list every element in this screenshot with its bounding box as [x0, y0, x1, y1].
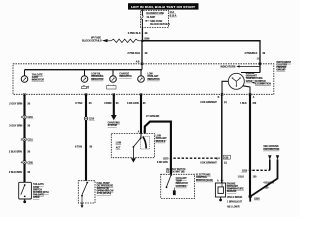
connector C08	[216, 155, 230, 160]
svg-text:CHARGING: CHARGING	[108, 122, 120, 125]
engine coolant temperature gauge	[228, 73, 244, 89]
label 1 BLK 150 lower	[238, 176, 257, 178]
fuel pump oil pressure switch box	[78, 181, 95, 203]
svg-text:LOW: LOW	[116, 142, 122, 144]
wire pnk/blk from fuse down	[141, 28, 143, 41]
svg-text:MODULE: MODULE	[156, 141, 166, 143]
svg-text:COOLANT: COOLANT	[147, 75, 159, 78]
connector C210 (left)	[21, 115, 34, 119]
wire dk grn/wht from gauge pin B	[221, 94, 223, 183]
cluster illumination branch	[252, 81, 272, 86]
label 2 BRN 35	[104, 102, 119, 105]
wire blk from gauge pin A	[249, 94, 251, 196]
svg-text:A B: A B	[136, 60, 140, 63]
gauge right pin wire	[243, 86, 250, 95]
label 2 GY BRN 30	[9, 102, 31, 105]
svg-text:COOLANT: COOLANT	[156, 137, 168, 140]
svg-text:TAILGATE: TAILGATE	[33, 194, 44, 197]
low coolant module ground	[131, 158, 136, 162]
svg-text:SEE GROUND: SEE GROUND	[263, 146, 278, 148]
svg-text:3 DK GRN: 3 DK GRN	[127, 102, 139, 105]
wire dk grn to ecm (elbow)	[145, 122, 171, 175]
connector C305	[21, 161, 34, 165]
svg-text:INDICATOR: INDICATOR	[147, 78, 160, 81]
svg-text:BLOCK DETAILS: BLOCK DETAILS	[82, 40, 102, 43]
splice S210	[241, 169, 251, 173]
svg-text:GAGE: GAGE	[246, 80, 253, 83]
ecm pin labels	[166, 168, 186, 174]
svg-text:SYSTEM: SYSTEM	[108, 125, 117, 127]
svg-text:INDICATORS: INDICATORS	[220, 66, 235, 69]
svg-text:2 BLK BRN: 2 BLK BRN	[9, 171, 22, 174]
label 1 BLK 150 upper	[240, 103, 257, 105]
svg-text:DISTRIBUTION: DISTRIBUTION	[263, 149, 279, 151]
connector C110	[21, 138, 34, 142]
svg-text:4 PSI (28 kPa): 4 PSI (28 kPa)	[97, 192, 112, 195]
label 8 DK GRN/WHT (L)	[200, 102, 227, 104]
svg-text:3 GXY BRN: 3 GXY BRN	[9, 125, 22, 128]
svg-text:8 TAN: 8 TAN	[75, 146, 82, 149]
label 8 DK GRN/WHT (L) lower	[200, 163, 227, 165]
stub to lamp 3	[112, 70, 114, 76]
label low coolant module	[156, 136, 168, 143]
ground G200	[249, 195, 261, 202]
label electronic control module	[196, 175, 213, 182]
fuse wire lower stub	[141, 20, 143, 28]
svg-text:TAILGATE: TAILGATE	[32, 74, 43, 77]
ground dist arrow 2	[250, 155, 279, 196]
svg-text:HOT IN RUN, BULB TEST OR START: HOT IN RUN, BULB TEST OR START	[131, 5, 195, 9]
label instrument cluster printed circuit	[276, 62, 291, 72]
svg-text:TEMPERATURE: TEMPERATURE	[246, 77, 263, 80]
battery icon	[107, 85, 117, 89]
label 2 PNK BLK 39 lower	[127, 52, 148, 55]
tailgate ajar switch box	[19, 182, 32, 199]
ecm pin dot	[170, 174, 172, 176]
wire W3 charging	[113, 94, 115, 115]
electronic control module box	[161, 174, 195, 198]
charging system arrow	[108, 115, 120, 127]
svg-text:8 DK GRN: 8 DK GRN	[157, 162, 168, 164]
svg-text:INDICATOR: INDICATOR	[119, 75, 132, 78]
label oil pressure indicator	[91, 74, 104, 81]
svg-text:(L): (L)	[224, 163, 227, 165]
low coolant probe	[140, 136, 149, 149]
wire pnk/blk right leg down	[259, 40, 261, 73]
label 2 PNK/BLK 39 right	[245, 52, 266, 55]
svg-text:ILLUMINATION: ILLUMINATION	[255, 82, 271, 85]
label 2 BLK BRN 30	[9, 151, 31, 154]
svg-text:AJAR: AJAR	[32, 76, 38, 79]
label low coolant indicator	[147, 74, 160, 81]
svg-text:(C) 8 DK WHT (M): (C) 8 DK WHT (M)	[166, 172, 185, 174]
oil pressure indicator lamp	[81, 76, 88, 83]
low coolant indicator lamp	[138, 76, 145, 83]
svg-text:COOLANT: COOLANT	[176, 177, 188, 180]
label I/P fuse block	[170, 11, 177, 17]
coolant temperature sensor box	[215, 183, 225, 197]
charge indicator lamp	[110, 76, 117, 83]
svg-text:3 BRN: 3 BRN	[104, 102, 112, 105]
svg-text:SENSOR: SENSOR	[227, 191, 237, 193]
coolant temp indicator control switch	[166, 175, 176, 195]
svg-text:INDICATOR: INDICATOR	[91, 78, 104, 81]
fuse wire stub	[141, 10, 143, 15]
low coolant switch	[133, 134, 142, 158]
svg-text:MODULE (ECM): MODULE (ECM)	[196, 180, 213, 182]
fuel switch ground arrow	[81, 203, 84, 208]
label 8 TAN 30	[75, 102, 92, 105]
label coolant temperature sensor	[227, 183, 244, 193]
svg-text:AB 1 LOW R: AB 1 LOW R	[227, 205, 240, 208]
stub to lamp 1	[24, 70, 26, 76]
instrument cluster dashed box	[13, 64, 274, 95]
ground dist arrow 1	[268, 155, 271, 170]
label 2 PNK BLK 39 upper	[128, 32, 148, 35]
svg-text:TEMPERATURE: TEMPERATURE	[227, 188, 244, 191]
label 4 BLK 150	[263, 181, 274, 189]
wire W1 tailgate	[23, 94, 25, 182]
main feed wire horizontal	[142, 40, 260, 42]
sensor pin tick	[217, 179, 224, 182]
tailgate ajar indicator lamp	[21, 76, 28, 83]
wire W4 low coolant	[140, 94, 142, 133]
svg-text:1 BRN BLK ST: 1 BRN BLK ST	[227, 202, 243, 204]
label tailgate ajar indicator	[32, 74, 45, 82]
gauge left pin wire	[222, 81, 228, 94]
svg-text:LT GRN 384: LT GRN 384	[146, 115, 160, 118]
svg-text:2 GXY BRN: 2 GXY BRN	[9, 102, 22, 105]
label 8 TAN 30 mid	[75, 146, 93, 149]
svg-text:8 DK GRN/WHT: 8 DK GRN/WHT	[200, 163, 217, 165]
splice dashes to ground stub	[252, 169, 269, 171]
label fuel pump oil pressure switch	[97, 183, 115, 195]
svg-text:S275: S275	[163, 159, 169, 161]
crossing ticks at cluster box	[23, 63, 261, 96]
wire W2 fuel/oil	[85, 94, 87, 180]
svg-text:COOLANT: COOLANT	[246, 75, 258, 78]
stub to lamp 4	[140, 70, 142, 76]
svg-text:CONTROL: CONTROL	[176, 186, 188, 188]
svg-text:(A) 8 BLK WHT (S): (A) 8 BLK WHT (S)	[166, 168, 186, 171]
svg-text:10 AMP: 10 AMP	[146, 16, 155, 19]
low coolant module box	[111, 134, 154, 158]
label tailgate ajar switch	[33, 183, 49, 199]
label 3 LT GRN 31	[127, 102, 146, 105]
sensor ground dot	[219, 197, 222, 201]
svg-text:4 BLK 150: 4 BLK 150	[263, 181, 274, 184]
label 2 BLK BRN 30 lower	[9, 171, 31, 174]
svg-text:8 DK GRN/WHT: 8 DK GRN/WHT	[200, 102, 217, 104]
svg-text:INDICATOR: INDICATOR	[176, 182, 189, 185]
header hot-in-run bar	[128, 3, 199, 9]
svg-text:INDICATOR: INDICATOR	[32, 79, 45, 82]
cluster feed bus	[25, 69, 143, 71]
svg-text:(L): (L)	[224, 102, 227, 104]
svg-text:2 PNK BLK: 2 PNK BLK	[127, 52, 140, 55]
svg-text:VIN C 1 BRN 21: VIN C 1 BRN 21	[227, 197, 243, 199]
wire pnk/blk down to cluster pin A	[141, 41, 143, 64]
label engine coolant temperature gage	[246, 73, 263, 83]
stub to lamp 2	[84, 70, 86, 76]
svg-text:COOLANT: COOLANT	[227, 185, 239, 188]
splice dashes to C8	[173, 157, 219, 159]
svg-text:CHARGE: CHARGE	[119, 73, 129, 76]
svg-text:2 BLK BRN: 2 BLK BRN	[9, 151, 22, 154]
svg-text:1 BLK: 1 BLK	[238, 176, 245, 178]
vin notes	[227, 197, 243, 209]
svg-text:TAILGATE: TAILGATE	[33, 183, 44, 186]
svg-text:ACT: ACT	[116, 147, 121, 150]
svg-text:CIRCUIT: CIRCUIT	[276, 70, 286, 72]
svg-text:2 PNK BLK: 2 PNK BLK	[128, 32, 141, 35]
wire to temp gauge top	[241, 72, 260, 74]
label charge indicator	[119, 73, 132, 79]
svg-text:8 TAN: 8 TAN	[75, 102, 82, 105]
svg-text:1 U: 1 U	[257, 58, 261, 60]
label low act	[116, 142, 122, 149]
connector C210 (mid)	[84, 117, 95, 121]
gauges fuse F	[142, 14, 143, 20]
svg-text:AJAR: AJAR	[33, 186, 39, 189]
splice S208	[141, 38, 150, 42]
label 3 GY BRN 30	[9, 125, 31, 128]
svg-text:1 BLK: 1 BLK	[240, 103, 247, 105]
oil can icon	[82, 86, 89, 89]
see fuse block details arrow (inside)	[145, 20, 171, 26]
see ground distribution	[263, 146, 279, 151]
splice S275	[163, 157, 172, 160]
tailgate switch ground dot	[23, 199, 26, 203]
label coolant temp indicator control	[176, 177, 189, 188]
svg-text:BLOCK DETAILS: BLOCK DETAILS	[150, 23, 170, 26]
label GAUGES FUSE	[146, 12, 164, 19]
see fuse block details leader (left zigzag)	[82, 36, 141, 42]
I/P fuse block dashed box	[141, 10, 169, 27]
svg-text:OPEN: OPEN	[33, 197, 40, 199]
indicators branch arrow	[220, 65, 260, 68]
svg-text:2 PNK/BLK: 2 PNK/BLK	[245, 52, 258, 55]
